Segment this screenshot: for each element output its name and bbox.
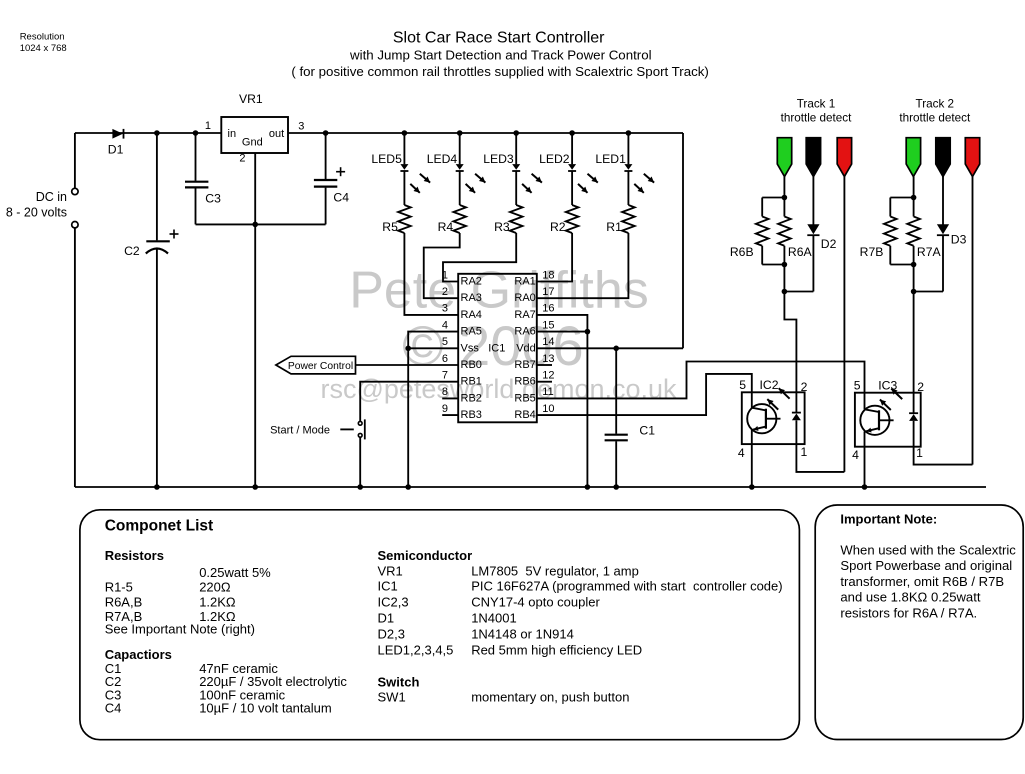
svg-text:RB1: RB1: [461, 376, 482, 388]
svg-text:Red 5mm high efficiency LED: Red 5mm high efficiency LED: [471, 643, 642, 658]
svg-text:When used with the Scalextric: When used with the Scalextric: [840, 543, 1016, 558]
svg-text:R3: R3: [494, 220, 510, 234]
important note box: [815, 505, 1023, 740]
wire Vss pin 5 stub: [408, 347, 458, 349]
IC1 pin 8 stub: [442, 397, 458, 399]
wire LED4 anode lead: [459, 133, 461, 164]
IC2 internal LED diode: [792, 412, 801, 414]
resistor R7B: [889, 198, 891, 217]
wire VR1 gnd lead: [254, 153, 256, 224]
svg-text:0.25watt 5%: 0.25watt 5%: [199, 565, 271, 580]
svg-text:IC2: IC2: [760, 378, 779, 392]
node junction R7A/R7B bottom: [911, 262, 917, 268]
op IC1 PIC microcontroller body: [458, 274, 537, 423]
wire LED3 anode lead: [515, 133, 517, 164]
wire track2 green lead: [913, 177, 915, 198]
wire RA6 pin 15 stub: [537, 331, 588, 333]
resistor R4: [453, 205, 466, 233]
wire RA5 pin 4 to Vss: [408, 332, 458, 349]
svg-text:R1-5: R1-5: [105, 580, 133, 595]
svg-text:2: 2: [442, 286, 448, 298]
connector track2 red throttle: [965, 138, 979, 177]
IC1 pin 9 stub: [442, 414, 458, 416]
svg-text:2: 2: [239, 153, 245, 165]
svg-text:RA7: RA7: [514, 309, 535, 321]
wire LED3 cathode lead: [515, 171, 517, 205]
svg-text:rsc@petesworld.demon.co.uk: rsc@petesworld.demon.co.uk: [320, 374, 677, 404]
svg-text:RB0: RB0: [461, 359, 482, 371]
LED4 light arrows: [475, 174, 485, 183]
wire RB4 pin 10 to IC2 pin 5: [537, 374, 752, 415]
resistor R2: [566, 205, 579, 233]
svg-text:R6A: R6A: [788, 245, 813, 259]
svg-text:R6B: R6B: [730, 245, 754, 259]
svg-text:Gnd: Gnd: [242, 137, 263, 149]
svg-text:11: 11: [542, 386, 553, 398]
LED LED3: [512, 164, 520, 170]
wire track1 green lead: [783, 177, 785, 198]
svg-text:D2,3: D2,3: [378, 626, 405, 641]
svg-text:Pete Griffiths: Pete Griffiths: [349, 262, 649, 320]
wire track1 node to IC2 pin 2: [784, 292, 796, 393]
svg-text:3: 3: [298, 121, 304, 133]
node junction IC3 pin4 / ground rail: [862, 484, 868, 490]
wire R7B bottom link: [890, 264, 913, 266]
IC3 internal LED anode lead: [913, 421, 915, 447]
opto coupler IC2 body: [742, 392, 805, 444]
wire top rail left segment: [75, 132, 221, 134]
resistor R6B: [761, 198, 763, 217]
transistor IC3 phototransistor: [860, 406, 889, 435]
svg-text:1N4001: 1N4001: [471, 611, 517, 626]
wire R6 bottom to D2 node: [783, 265, 785, 292]
LED LED4: [456, 164, 464, 170]
terminal DC-in negative: [72, 222, 78, 228]
node junction Vdd / C1: [613, 346, 619, 352]
svg-text:Resistors: Resistors: [105, 548, 164, 563]
wire C4 bottom lead: [325, 188, 327, 225]
capacitor C4: [314, 179, 337, 181]
node junction C2 / ground rail: [154, 484, 160, 490]
svg-text:LED4: LED4: [427, 152, 458, 166]
svg-text:13: 13: [542, 353, 554, 365]
component list box: [80, 510, 800, 740]
svg-text:1: 1: [205, 120, 211, 132]
node junction gnd link: [252, 222, 258, 228]
wire gnd down to rail: [254, 224, 256, 487]
svg-text:LM7805 5V regulator, 1 amp: LM7805 5V regulator, 1 amp: [471, 564, 639, 579]
resistor R5: [398, 205, 411, 233]
node junction switch / ground rail: [357, 484, 363, 490]
svg-text:3: 3: [442, 303, 448, 315]
IC3 base lead: [879, 419, 894, 421]
svg-text:1.2KΩ: 1.2KΩ: [199, 594, 236, 609]
wire D2 to track1 node: [784, 291, 813, 293]
LED LED5: [400, 164, 408, 170]
svg-text:LED1: LED1: [595, 152, 626, 166]
svg-text:1: 1: [801, 445, 808, 459]
svg-text:See Important Note (right): See Important Note (right): [105, 622, 255, 637]
svg-text:( for positive common rail thr: ( for positive common rail throttles sup…: [291, 64, 709, 79]
node junction R6A/R6B top: [782, 195, 788, 201]
diode D2: [807, 224, 819, 234]
svg-text:LED1,2,3,4,5: LED1,2,3,4,5: [378, 643, 454, 658]
svg-text:Sport Powerbase and original: Sport Powerbase and original: [840, 558, 1012, 573]
svg-text:7: 7: [442, 370, 448, 382]
wire R7B top link: [890, 197, 913, 199]
node junction top rail / LED5: [402, 130, 408, 136]
svg-text:throttle detect: throttle detect: [781, 112, 853, 125]
svg-text:Power Control: Power Control: [288, 361, 353, 372]
svg-text:momentary on, push button: momentary on, push button: [471, 690, 629, 705]
wire LED1 anode lead: [627, 133, 629, 164]
svg-text:5: 5: [739, 378, 746, 392]
svg-text:VR1: VR1: [239, 92, 263, 106]
node junction C1 / ground rail: [613, 484, 619, 490]
resistor R6A: [783, 198, 785, 217]
svg-text:Capactiors: Capactiors: [105, 647, 172, 662]
IC3 internal LED cathode lead: [913, 393, 915, 413]
svg-text:1: 1: [916, 446, 923, 460]
wire right riser to Vdd: [682, 133, 684, 348]
svg-text:RA5: RA5: [461, 326, 482, 338]
svg-text:4: 4: [852, 448, 859, 462]
wire R2 to RA1 pin 18: [537, 233, 572, 282]
LED3 light arrows: [532, 174, 542, 183]
svg-text:R7A: R7A: [917, 245, 942, 259]
LED LED2: [568, 164, 576, 170]
wire LED5 cathode lead: [403, 171, 405, 205]
LED5 light arrows: [420, 174, 430, 183]
wire D3 cathode down: [942, 235, 944, 291]
capacitor C1: [605, 434, 628, 436]
wire C3 bottom lead: [195, 188, 197, 224]
svg-text:220Ω: 220Ω: [199, 580, 231, 595]
node junction RA7 leg / ground rail: [585, 484, 591, 490]
svg-text:2: 2: [801, 380, 808, 394]
wire IC3 pin 4 emitter to ground rail: [864, 431, 866, 487]
svg-text:C3: C3: [205, 192, 221, 206]
wire IC2 pin 1 to track1 red: [796, 444, 844, 472]
svg-text:RB2: RB2: [461, 392, 482, 404]
wire Vdd pin 14 to right riser: [537, 347, 683, 349]
svg-text:17: 17: [542, 286, 554, 298]
node junction track1 detect: [782, 289, 788, 295]
terminal DC-in positive: [72, 188, 78, 194]
wire R6B top link: [762, 197, 784, 199]
svg-text:LED2: LED2: [539, 152, 570, 166]
svg-text:C4: C4: [333, 191, 349, 205]
node junction top rail / C4: [323, 130, 329, 136]
IC2 collector internal lead: [751, 392, 753, 407]
IC2 emitter lead with arrow: [753, 427, 766, 430]
IC2 internal LED cathode lead: [795, 392, 797, 412]
IC3 light arrows: [891, 389, 902, 400]
connector track1 green throttle: [777, 138, 791, 177]
wire RB5 pin 11 to IC3 pin 5: [537, 362, 865, 399]
svg-text:D2: D2: [821, 237, 837, 251]
svg-text:LED3: LED3: [483, 152, 514, 166]
svg-text:18: 18: [542, 269, 554, 281]
svg-text:R2: R2: [550, 220, 566, 234]
wire LED1 cathode lead: [627, 171, 629, 205]
svg-text:Track 1: Track 1: [797, 98, 836, 111]
svg-text:14: 14: [542, 336, 554, 348]
wire R3 to RA2 pin 1: [443, 233, 516, 282]
connector track1 red throttle: [837, 138, 851, 177]
svg-text:Vss: Vss: [461, 342, 480, 354]
wire R7 bottom to D3 node: [913, 265, 915, 292]
wire LED4 cathode lead: [459, 171, 461, 205]
svg-text:R4: R4: [438, 220, 454, 234]
svg-text:RB4: RB4: [514, 409, 535, 421]
wire track1 red down: [843, 177, 845, 472]
node junction Vss / ground rail: [405, 484, 411, 490]
svg-text:D1: D1: [108, 142, 124, 156]
svg-text:1N4148 or 1N914: 1N4148 or 1N914: [471, 626, 574, 641]
connector track2 green throttle: [906, 138, 920, 177]
IC3 internal LED diode: [909, 412, 918, 414]
svg-text:IC1: IC1: [378, 579, 398, 594]
svg-text:Resolution: Resolution: [20, 31, 65, 42]
svg-text:8 - 20 volts: 8 - 20 volts: [6, 206, 67, 220]
svg-text:CNY17-4 opto coupler: CNY17-4 opto coupler: [471, 595, 600, 610]
IC2 base lead: [766, 418, 781, 420]
wire DC-in bottom lead: [74, 228, 76, 487]
svg-text:RB7: RB7: [514, 359, 535, 371]
wire C2 top lead: [156, 133, 158, 240]
flag Power Control output: [276, 356, 356, 374]
LED2 light arrows: [588, 174, 598, 183]
svg-text:15: 15: [542, 319, 554, 331]
svg-text:RB6: RB6: [514, 376, 535, 388]
switch SW1 start/mode push button: [358, 421, 362, 425]
svg-text:Vdd: Vdd: [516, 342, 536, 354]
svg-text:5: 5: [442, 336, 448, 348]
svg-text:8: 8: [442, 386, 448, 398]
node junction RA6/RA7: [585, 329, 591, 335]
svg-text:in: in: [228, 128, 237, 140]
wire LED2 anode lead: [571, 133, 573, 164]
wire D3 to track2 node: [914, 291, 943, 293]
LED LED1: [624, 164, 632, 170]
svg-text:2: 2: [917, 380, 924, 394]
wire bottom ground rail: [75, 486, 986, 488]
capacitor C2: [146, 240, 170, 242]
svg-text:C2: C2: [124, 244, 140, 258]
svg-text:IC1: IC1: [488, 342, 505, 354]
node junction top rail / LED4: [457, 130, 463, 136]
svg-text:Track 2: Track 2: [916, 98, 955, 111]
svg-text:RA4: RA4: [461, 309, 482, 321]
svg-text:RA0: RA0: [514, 292, 535, 304]
opto coupler IC3 body: [855, 393, 921, 447]
svg-text:R7B: R7B: [860, 245, 884, 259]
wire top rail right segment: [288, 132, 683, 134]
svg-text:Important Note:: Important Note:: [840, 512, 937, 527]
svg-text:R6A,B: R6A,B: [105, 594, 143, 609]
wire R4 to RA3 pin 2: [424, 233, 460, 298]
LED1 light arrows: [644, 174, 654, 183]
node junction gnd rail: [252, 484, 258, 490]
diode D1: [112, 129, 123, 139]
node junction top rail / LED1: [626, 130, 632, 136]
svg-text:1: 1: [442, 269, 448, 281]
svg-text:Switch: Switch: [378, 675, 420, 690]
diode D3: [937, 224, 949, 234]
svg-text:PIC 16F627A (programmed with s: PIC 16F627A (programmed with start contr…: [471, 579, 782, 594]
svg-text:Slot Car Race Start Controller: Slot Car Race Start Controller: [393, 30, 605, 47]
node junction R6A/R6B bottom: [782, 262, 788, 268]
wire switch to ground rail: [359, 437, 361, 487]
svg-text:RA1: RA1: [514, 276, 535, 288]
resistor R3: [510, 205, 523, 233]
svg-text:with Jump Start Detection and: with Jump Start Detection and Track Powe…: [349, 48, 652, 63]
resistor R7A: [913, 198, 915, 217]
wire RA7 pin 16 right: [537, 315, 588, 487]
svg-text:out: out: [269, 128, 284, 140]
svg-text:transformer, omit R6B / R7B: transformer, omit R6B / R7B: [840, 574, 1004, 589]
svg-text:10µF / 10 volt tantalum: 10µF / 10 volt tantalum: [199, 700, 332, 715]
wire LED2 cathode lead: [571, 171, 573, 205]
wire IC2 pin 4 emitter to ground rail: [751, 430, 753, 487]
svg-text:C1: C1: [639, 424, 655, 438]
svg-text:throttle detect: throttle detect: [899, 112, 971, 125]
wire R5 to RA4 pin 3: [404, 233, 458, 315]
svg-text:RB5: RB5: [514, 392, 535, 404]
svg-text:Componet List: Componet List: [105, 518, 214, 535]
svg-text:SW1: SW1: [378, 690, 406, 705]
connector track1 black throttle: [806, 138, 820, 177]
svg-text:C4: C4: [105, 700, 122, 715]
IC1 pin 13 stub: [537, 364, 552, 366]
wire R1 to RA0 pin 17: [537, 233, 629, 298]
node junction top rail / C2: [154, 130, 160, 136]
wire IC3 pin 1 to track2 red: [914, 447, 973, 465]
wire D2 cathode down: [812, 235, 814, 291]
svg-text:9: 9: [442, 403, 448, 415]
transistor IC2 phototransistor: [747, 404, 776, 433]
node junction IC2 pin4 / ground rail: [749, 484, 755, 490]
svg-text:10: 10: [542, 403, 554, 415]
wire switch actuator lead: [340, 428, 354, 430]
capacitor C3: [185, 181, 208, 183]
IC2 light arrows: [779, 388, 790, 399]
svg-text:Semiconductor: Semiconductor: [378, 548, 473, 563]
svg-text:R5: R5: [382, 220, 398, 234]
wire C1 bottom lead: [615, 441, 617, 487]
wire C1 top lead: [615, 348, 617, 434]
wire Power Control to RB0 pin 6: [356, 364, 459, 366]
node junction R7A/R7B top: [911, 195, 917, 201]
node junction track2 detect: [911, 289, 917, 295]
svg-text:VR1: VR1: [378, 564, 403, 579]
svg-text:and use 1.8KΩ 0.25watt: and use 1.8KΩ 0.25watt: [840, 590, 980, 605]
IC3 collector internal lead: [864, 393, 866, 410]
svg-text:RA3: RA3: [461, 292, 482, 304]
svg-text:IC2,3: IC2,3: [378, 595, 409, 610]
C4 plus sign: [336, 171, 345, 173]
resistor R1: [622, 205, 635, 233]
wire RB1 pin 7 to switch: [360, 382, 458, 422]
wire C2 bottom lead: [156, 249, 158, 487]
svg-text:DC in: DC in: [36, 190, 67, 204]
wire DC-in top lead: [74, 133, 76, 188]
svg-text:D1: D1: [378, 611, 395, 626]
svg-text:LED5: LED5: [371, 152, 402, 166]
wire LED5 anode lead: [403, 133, 405, 164]
node junction top rail / LED2: [569, 130, 575, 136]
IC1 pin 12 stub: [537, 381, 552, 383]
wire track1 black lead: [812, 177, 814, 225]
voltage regulator VR1: [221, 117, 288, 153]
svg-text:4: 4: [738, 446, 745, 460]
svg-text:D3: D3: [951, 233, 967, 247]
svg-text:RA6: RA6: [514, 326, 535, 338]
wire track2 red down: [972, 177, 974, 465]
node junction Vss: [405, 346, 411, 352]
IC3 emitter lead with arrow: [866, 428, 879, 431]
svg-text:12: 12: [542, 370, 554, 382]
wire Vss down to ground rail: [407, 348, 409, 487]
wire R6B bottom link: [762, 264, 784, 266]
C2 plus sign: [170, 233, 179, 235]
svg-text:R1: R1: [606, 220, 622, 234]
svg-text:5: 5: [854, 378, 861, 392]
wire track2 node to IC3 pin 2: [913, 292, 915, 393]
IC2 internal LED anode lead: [795, 420, 797, 444]
wire C3 top lead: [195, 133, 197, 181]
svg-text:RB3: RB3: [461, 409, 482, 421]
node junction top rail / C3: [193, 130, 199, 136]
svg-text:RA2: RA2: [461, 276, 482, 288]
wire track2 black lead: [942, 177, 944, 225]
node junction top rail / LED3: [513, 130, 519, 136]
svg-text:Start / Mode: Start / Mode: [270, 425, 330, 437]
connector track2 black throttle: [936, 138, 950, 177]
svg-text:16: 16: [542, 303, 554, 315]
svg-text:resistors for R6A / R7A.: resistors for R6A / R7A.: [840, 605, 977, 620]
svg-text:1024 x 768: 1024 x 768: [20, 43, 67, 54]
svg-text:6: 6: [442, 353, 448, 365]
svg-text:4: 4: [442, 319, 448, 331]
wire ground link C3-C4: [196, 223, 326, 225]
wire C4 top lead: [325, 133, 327, 179]
